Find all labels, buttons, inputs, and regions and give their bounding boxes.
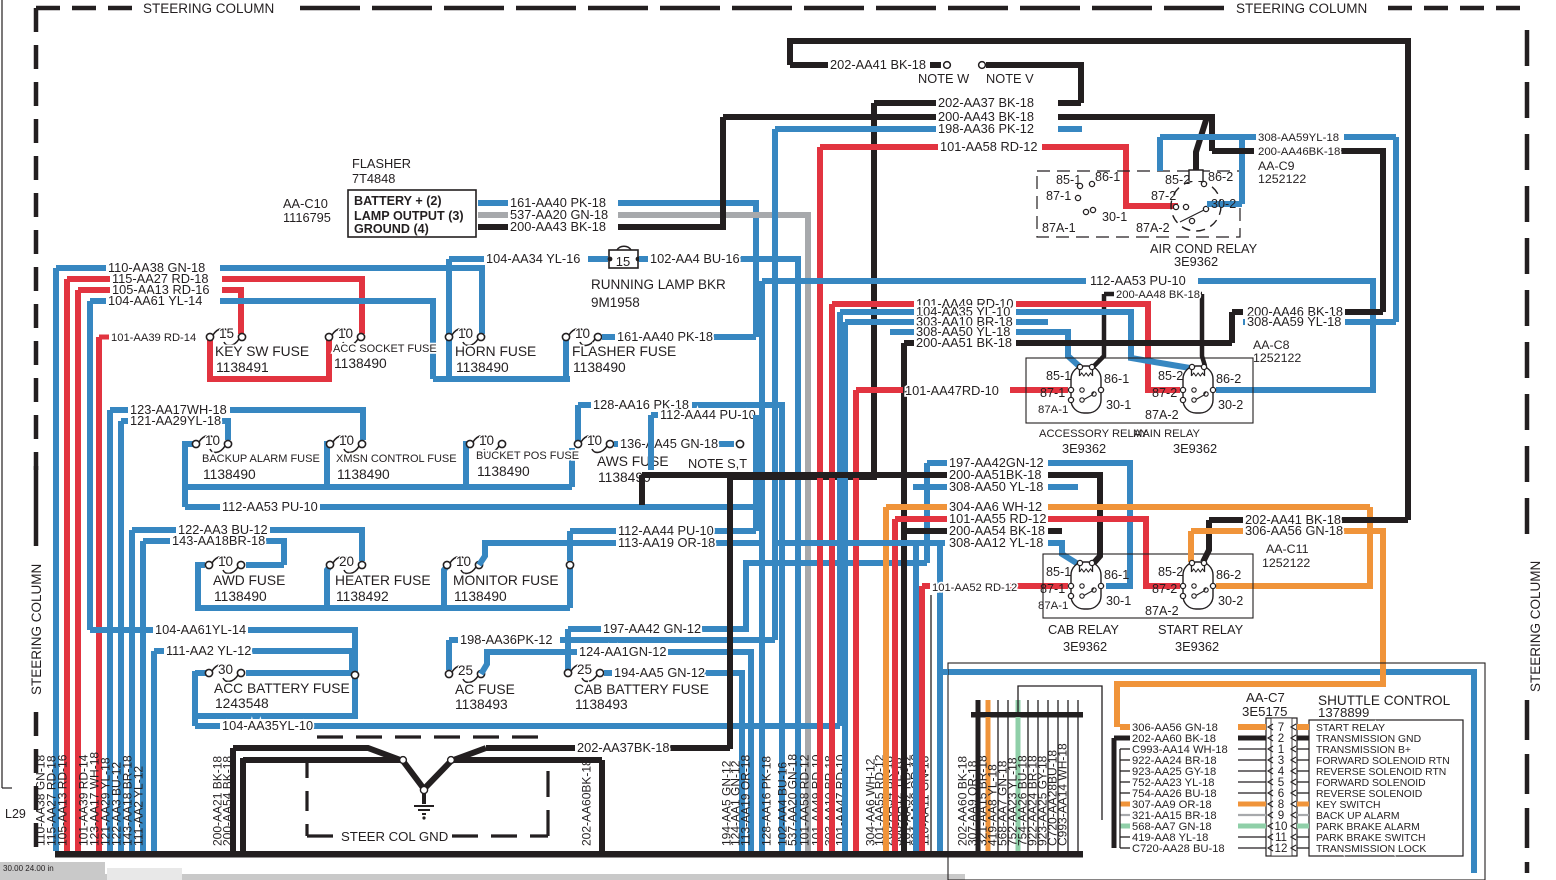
- wire 200-AA48 row: [1104, 292, 1114, 297]
- svg-text:143-AA18BR-18: 143-AA18BR-18: [172, 533, 265, 548]
- svg-text:30-2: 30-2: [1218, 398, 1243, 412]
- wire shuttle pin 12 C720-AA28: [1120, 847, 1130, 849]
- wire 197-AA42 lower row: [568, 626, 601, 632]
- svg-text:200-AA48 BK-18: 200-AA48 BK-18: [1116, 289, 1200, 301]
- svg-text:86-1: 86-1: [1095, 170, 1120, 184]
- svg-text:PARK BRAKE ALARM: PARK BRAKE ALARM: [1316, 822, 1420, 833]
- shuttle pin 7 chevrons: [1268, 724, 1296, 730]
- relay box CAB START: [1043, 554, 1253, 618]
- wire 101-AA47 row: [856, 387, 903, 393]
- flasher terminal box: [348, 190, 476, 237]
- svg-text:101-AA39 RD-14: 101-AA39 RD-14: [111, 332, 196, 344]
- wire 922-AA24 connector stub: [1047, 717, 1049, 851]
- wire 104-AA34 row: [449, 256, 484, 262]
- svg-text:BUCKET POS FUSE: BUCKET POS FUSE: [476, 450, 579, 462]
- svg-text:TRANSMISSION B+: TRANSMISSION B+: [1316, 745, 1411, 756]
- wire 101-AA52 row: [922, 583, 930, 589]
- svg-text:3E9362: 3E9362: [1173, 441, 1217, 456]
- wire 104-AA61 lower row: [90, 627, 153, 633]
- wire 123-AA17 vertical: [107, 410, 113, 851]
- relay AIR COND unit: [1171, 181, 1221, 231]
- relay MAIN RELAY: [1183, 366, 1213, 413]
- wire 112-AA53 feed riser: [185, 441, 196, 447]
- shuttle pin 8 chevrons: [1268, 801, 1296, 807]
- wire 101-AA39 vertical: [96, 337, 102, 851]
- relay box ACCESSORY MAIN: [1026, 358, 1253, 423]
- svg-text:3E9362: 3E9362: [1175, 639, 1219, 654]
- wire 202-AA37 upper row: [874, 100, 936, 106]
- fuse AWS FUSE: [574, 440, 581, 447]
- svg-text:87A-2: 87A-2: [1145, 408, 1179, 422]
- svg-text:BACKUP ALARM FUSE: BACKUP ALARM FUSE: [202, 453, 320, 465]
- breaker RUNNING LAMP BKR symbol: [609, 250, 638, 268]
- wire shuttle pin 2 202-AA60: [1120, 736, 1130, 741]
- svg-text:1138490: 1138490: [203, 467, 256, 482]
- svg-text:87A-1: 87A-1: [1042, 221, 1076, 235]
- svg-text:85-1: 85-1: [1046, 369, 1071, 383]
- wire 112-AA53 row: [185, 504, 220, 510]
- fuse ACC BATTERY FUSE: [205, 669, 212, 676]
- svg-text:3E5175: 3E5175: [1242, 704, 1287, 719]
- shuttle area box: [948, 663, 1485, 880]
- svg-text:200-AA54 BK-18: 200-AA54 BK-18: [221, 756, 235, 846]
- wire horn flasher input bus: [433, 376, 570, 382]
- wire 197-AA42 row: [927, 460, 947, 466]
- svg-text:30.00 24.00 in: 30.00 24.00 in: [3, 864, 54, 873]
- svg-text:200-AA43 BK-18: 200-AA43 BK-18: [510, 219, 606, 234]
- wire 202-AA60 gnd vertical: [599, 760, 605, 851]
- wire 102-AA4 row: [639, 256, 648, 262]
- wire 161-AA40 flasher row: [478, 200, 508, 206]
- wire 419-AA8 connector stub: [1007, 717, 1009, 851]
- wire 104-AA61 row: [90, 298, 106, 304]
- wire 200-AA43 into air relay coil: [1196, 117, 1207, 170]
- svg-text:REVERSE SOLENOID RTN: REVERSE SOLENOID RTN: [1316, 767, 1446, 778]
- svg-text:FORWARD SOLENOID: FORWARD SOLENOID: [1316, 778, 1426, 789]
- shuttle pin 2 chevrons: [1268, 735, 1296, 741]
- wire 105-AA13 vertical: [75, 290, 81, 851]
- terminal NOTE V circle: [979, 62, 986, 69]
- svg-text:104-AA35YL-10: 104-AA35YL-10: [222, 718, 313, 733]
- svg-text:GROUND (4): GROUND (4): [354, 222, 429, 236]
- svg-text:200-AA51 BK-18: 200-AA51 BK-18: [916, 335, 1012, 350]
- svg-text:124-AA1GN-12: 124-AA1GN-12: [579, 644, 667, 659]
- svg-text:111-AA2 YL-12: 111-AA2 YL-12: [132, 766, 146, 846]
- ground junction dots: [400, 757, 407, 764]
- svg-text:ACC BATTERY FUSE: ACC BATTERY FUSE: [214, 681, 350, 696]
- svg-text:START RELAY: START RELAY: [1158, 622, 1244, 637]
- wire 101-AA58 row: [820, 144, 938, 150]
- svg-text:STEERING COLUMN: STEERING COLUMN: [1236, 1, 1367, 16]
- wire 308-AA59 lower row: [1243, 319, 1245, 325]
- wire 200-AA46 upper row: [1212, 148, 1254, 154]
- relay CAB RELAY: [1071, 562, 1101, 609]
- svg-text:1252122: 1252122: [1253, 351, 1301, 365]
- wire 308-AA50 lower row: [913, 484, 947, 490]
- svg-text:XMSN CONTROL FUSE: XMSN CONTROL FUSE: [336, 453, 457, 465]
- svg-text:102-AA4 BU-16: 102-AA4 BU-16: [650, 251, 740, 266]
- wire 304-AA6 to START 30-2: [1216, 507, 1370, 586]
- svg-text:111-AA2 YL-12: 111-AA2 YL-12: [166, 643, 251, 658]
- svg-text:TRANSMISSION GND: TRANSMISSION GND: [1316, 734, 1421, 745]
- svg-text:86-2: 86-2: [1216, 372, 1241, 386]
- wire 110-AA38 row: [56, 265, 106, 271]
- svg-text:101-AA47RD-10: 101-AA47RD-10: [905, 383, 999, 398]
- fuse HORN FUSE: [445, 333, 452, 340]
- shuttle pin 6 chevrons: [1268, 790, 1296, 796]
- fuse BACKUP ALARM FUSE: [192, 440, 199, 447]
- svg-text:3E9362: 3E9362: [1063, 639, 1107, 654]
- wire 308-AA12 row: [775, 540, 945, 546]
- svg-text:MAIN RELAY: MAIN RELAY: [1133, 428, 1200, 440]
- svg-text:25: 25: [458, 663, 473, 678]
- wire 200-AA43 flasher row: [478, 224, 508, 230]
- fuse CAB BATTERY FUSE: [564, 669, 571, 676]
- wire 115-AA27 row: [67, 276, 110, 282]
- svg-text:86-2: 86-2: [1216, 568, 1241, 582]
- svg-text:121-AA29YL-18: 121-AA29YL-18: [130, 413, 221, 428]
- wire 752-AA23 connector stub: [1027, 717, 1029, 851]
- svg-text:3E9362: 3E9362: [1062, 441, 1106, 456]
- svg-text:HORN FUSE: HORN FUSE: [455, 344, 536, 359]
- svg-text:STEERING COLUMN: STEERING COLUMN: [143, 1, 274, 16]
- shuttle pin 10 chevrons: [1268, 823, 1296, 829]
- wire shuttle pin 9 321-AA15: [1120, 814, 1130, 816]
- wire 101-AA49 row: [832, 301, 914, 307]
- svg-text:1116795: 1116795: [283, 210, 331, 225]
- shuttle pin 1 chevrons: [1268, 746, 1296, 752]
- svg-text:197-AA42 GN-12: 197-AA42 GN-12: [603, 621, 701, 636]
- shuttle pin 3 chevrons: [1268, 757, 1296, 763]
- wire blue bottom frame run: [940, 669, 948, 675]
- svg-text:9M1958: 9M1958: [591, 295, 640, 310]
- svg-text:105-AA13 RD-16: 105-AA13 RD-16: [56, 754, 70, 846]
- svg-text:KEY SW FUSE: KEY SW FUSE: [215, 344, 309, 359]
- fuse FLASHER FUSE: [562, 333, 569, 340]
- svg-text:AWD FUSE: AWD FUSE: [213, 573, 285, 588]
- svg-text:BACK UP ALARM: BACK UP ALARM: [1316, 811, 1400, 822]
- shuttle pin 4 chevrons: [1268, 768, 1296, 774]
- wire 122-AA3 vertical: [129, 530, 135, 851]
- shuttle signal box: [1309, 720, 1463, 856]
- wire NOTE V to 202-AA37: [986, 65, 1081, 103]
- wire 143-AA18 row: [143, 538, 170, 544]
- wire 308-AA50 row: [890, 329, 914, 335]
- svg-text:AA-C7: AA-C7: [1246, 690, 1285, 705]
- svg-text:START RELAY: START RELAY: [1316, 723, 1385, 734]
- svg-text:200-AA46BK-18: 200-AA46BK-18: [1258, 146, 1340, 158]
- wire 128-AA16 row: [578, 402, 591, 408]
- wire 104-AA35 upper row: [840, 309, 914, 315]
- svg-text:1138490: 1138490: [214, 589, 267, 604]
- svg-text:STEER COL GND: STEER COL GND: [341, 829, 448, 844]
- svg-text:1138493: 1138493: [575, 697, 628, 712]
- svg-text:10: 10: [456, 554, 471, 569]
- svg-text:1138491: 1138491: [216, 360, 269, 375]
- svg-text:MONITOR FUSE: MONITOR FUSE: [453, 573, 559, 588]
- svg-text:1138490: 1138490: [456, 360, 509, 375]
- wire 112-AA53 right row: [762, 278, 1086, 284]
- svg-text:REVERSE SOLENOID: REVERSE SOLENOID: [1316, 789, 1422, 800]
- svg-text:15: 15: [616, 254, 630, 269]
- svg-text:20: 20: [339, 554, 354, 569]
- svg-text:86-2: 86-2: [1208, 170, 1233, 184]
- svg-text:3E9362: 3E9362: [1174, 254, 1218, 269]
- svg-text:10: 10: [339, 433, 354, 448]
- shuttle pin 5 chevrons: [1268, 779, 1296, 785]
- terminal monitor aux circle: [566, 561, 573, 568]
- scan gray box bottom-left: [0, 862, 105, 880]
- wire 304-AA6 row: [886, 504, 947, 510]
- wire 115-AA27 vertical: [64, 279, 70, 851]
- wire shuttle pin 8 307-AA9: [1120, 802, 1130, 807]
- svg-text:CAB BATTERY FUSE: CAB BATTERY FUSE: [574, 682, 709, 697]
- svg-text:128-AA16 PK-18: 128-AA16 PK-18: [760, 756, 774, 846]
- connector bottom bar: [971, 712, 1083, 718]
- svg-text:1378899: 1378899: [1318, 705, 1369, 720]
- svg-text:15: 15: [219, 326, 234, 341]
- wire 306-AA56 into START 85-2: [1188, 531, 1194, 562]
- svg-text:87A-1: 87A-1: [1038, 404, 1068, 416]
- svg-text:85-2: 85-2: [1165, 173, 1190, 187]
- wire C720-AA28BU-18 connector stub: [1067, 717, 1069, 851]
- wire 101-AA39 row: [99, 335, 109, 340]
- wire shuttle pin 11 419-AA8: [1120, 836, 1130, 838]
- wire 306-AA56 row: [1191, 528, 1243, 534]
- wire 121-AA29 row: [121, 418, 128, 424]
- svg-text:1138490: 1138490: [573, 360, 626, 375]
- wire 604-AA22 vertical thin: [930, 595, 932, 851]
- wire 202-AA37 gnd row: [486, 745, 575, 751]
- wire 321-AA15 connector stub: [997, 717, 999, 851]
- fuse ACC SOCKET FUSE: [325, 333, 332, 340]
- terminal NOTE S,T circle: [736, 440, 743, 447]
- border steering column top dashed line: [36, 6, 1524, 11]
- wire shuttle pin 4 923-AA25: [1120, 770, 1130, 772]
- wire 123-AA17 row: [110, 407, 128, 413]
- svg-text:104-AA61 YL-14: 104-AA61 YL-14: [108, 293, 202, 308]
- wire 200-AA54 gnd vertical: [240, 758, 246, 851]
- svg-text:104-AA61YL-14: 104-AA61YL-14: [155, 622, 246, 637]
- wire key sw fuse input loop: [210, 337, 329, 379]
- wire 111-AA2 vertical: [151, 651, 157, 851]
- wire 200-AA43 upper row: [723, 114, 936, 120]
- wire shuttle pin 7 306-AA56: [1120, 724, 1130, 730]
- svg-text:308-AA59 YL-18: 308-AA59 YL-18: [1247, 314, 1341, 329]
- svg-text:101-AA58 RD-12: 101-AA58 RD-12: [940, 139, 1037, 154]
- wire 105-AA13 row: [78, 287, 110, 293]
- svg-text:NOTE W: NOTE W: [918, 71, 970, 86]
- wire 202-AA41 lower row: [1209, 517, 1243, 523]
- svg-text:202-AA41 BK-18: 202-AA41 BK-18: [830, 57, 926, 72]
- svg-text:1138490: 1138490: [334, 356, 387, 371]
- wire 104-AA35 acc battery loop: [195, 670, 206, 676]
- svg-text:85-1: 85-1: [1046, 565, 1071, 579]
- svg-text:306-AA56 GN-18: 306-AA56 GN-18: [1245, 523, 1343, 538]
- svg-text:PARK BRAKE SWITCH: PARK BRAKE SWITCH: [1316, 833, 1426, 844]
- svg-text:STEERING COLUMN: STEERING COLUMN: [29, 564, 44, 695]
- svg-text:AA-C10: AA-C10: [283, 196, 328, 211]
- svg-text:AA-C9: AA-C9: [1258, 159, 1295, 173]
- svg-text:AWS FUSE: AWS FUSE: [597, 454, 669, 469]
- svg-text:198-AA36 PK-12: 198-AA36 PK-12: [938, 121, 1034, 136]
- svg-text:202-AA60BK-18: 202-AA60BK-18: [580, 759, 594, 846]
- svg-text:85-2: 85-2: [1158, 565, 1183, 579]
- wire 194-AA5 row: [604, 670, 612, 676]
- wire 101-AA55 row: [895, 516, 947, 522]
- wire 110-AA11 bottom run: [942, 672, 1474, 873]
- wire shuttle thin link: [1018, 686, 1102, 820]
- svg-text:112-AA44 PU-10: 112-AA44 PU-10: [618, 523, 714, 538]
- scan gray strip bottom: [0, 874, 965, 880]
- shuttle pin 9 chevrons: [1268, 812, 1296, 818]
- svg-text:25: 25: [577, 662, 592, 677]
- shuttle pin 11 chevrons: [1268, 834, 1296, 840]
- svg-text:1252122: 1252122: [1262, 556, 1310, 570]
- svg-text:202-AA37 BK-18: 202-AA37 BK-18: [938, 95, 1034, 110]
- svg-text:104-AA34 YL-16: 104-AA34 YL-16: [486, 251, 580, 266]
- svg-text:C993-AA14 WH-18: C993-AA14 WH-18: [1056, 743, 1070, 846]
- svg-text:1138490: 1138490: [337, 467, 390, 482]
- wire 161-AA40 fuse output: [602, 334, 615, 340]
- svg-text:10: 10: [458, 326, 473, 341]
- svg-text:85-1: 85-1: [1056, 173, 1081, 187]
- border steering column left dashed line: [34, 8, 39, 858]
- svg-text:ACC SOCKET FUSE: ACC SOCKET FUSE: [333, 343, 437, 355]
- svg-text:10: 10: [338, 326, 353, 341]
- ground symbol: [422, 793, 426, 804]
- wire 111-AA2 row: [154, 648, 164, 654]
- terminal acc battery junction circle: [351, 671, 358, 678]
- wire 136-AA45 output: [614, 441, 618, 447]
- svg-text:ACCESSORY RELAY: ACCESSORY RELAY: [1039, 428, 1148, 440]
- svg-text:112-AA44 PU-10: 112-AA44 PU-10: [660, 407, 756, 422]
- svg-text:12: 12: [1275, 842, 1288, 855]
- svg-text:202-AA37BK-18: 202-AA37BK-18: [577, 740, 669, 755]
- svg-text:30: 30: [218, 662, 233, 677]
- svg-text:87-1: 87-1: [1040, 386, 1065, 400]
- wire shuttle pin 10 568-AA7: [1120, 824, 1130, 829]
- wire 202-AA60 connector stub: [976, 717, 981, 851]
- svg-text:10: 10: [587, 433, 602, 448]
- shuttle pin 12 chevrons: [1268, 845, 1296, 851]
- wire 308-AA59 air relay output: [1207, 201, 1242, 207]
- svg-text:87-1: 87-1: [1040, 582, 1065, 596]
- svg-text:7T4848: 7T4848: [352, 171, 395, 186]
- svg-text:86-1: 86-1: [1104, 372, 1129, 386]
- wire 537-AA20 flasher row: [478, 212, 508, 218]
- wire 110-AA11 vertical: [937, 543, 943, 672]
- fuse KEY SW FUSE: [206, 333, 213, 340]
- svg-text:308-AA59YL-18: 308-AA59YL-18: [1258, 132, 1339, 144]
- wire 198-AA36 row: [449, 637, 458, 643]
- wire 112-AA44 lower row: [567, 531, 573, 561]
- wire 200-AA51 row: [642, 472, 947, 478]
- relay box AIR COND: [1037, 171, 1240, 237]
- wire 113-AA19 monitor output: [479, 543, 616, 565]
- wire 202-AA60 shuttle drop: [1112, 738, 1117, 848]
- svg-text:NOTE V: NOTE V: [986, 71, 1034, 86]
- steer col gnd dashed box: [317, 735, 549, 738]
- fuse HEATER FUSE: [326, 561, 333, 568]
- wire 202-AA41 top run: [790, 41, 1408, 520]
- svg-text:HEATER FUSE: HEATER FUSE: [335, 573, 431, 588]
- svg-text:86-1: 86-1: [1104, 568, 1129, 582]
- svg-text:AA-C8: AA-C8: [1253, 338, 1290, 352]
- svg-text:30-2: 30-2: [1211, 197, 1236, 211]
- wire 303-AA10 row: [845, 319, 914, 325]
- svg-text:1138492: 1138492: [336, 589, 389, 604]
- svg-text:308-AA12 YL-18: 308-AA12 YL-18: [949, 535, 1043, 550]
- wire 121-AA29 vertical: [118, 421, 124, 851]
- relay ACCESSORY RELAY: [1071, 366, 1101, 413]
- svg-text:30-1: 30-1: [1106, 398, 1131, 412]
- svg-text:RUNNING LAMP BKR: RUNNING LAMP BKR: [591, 277, 726, 292]
- svg-text:87-2: 87-2: [1152, 386, 1177, 400]
- svg-text:CAB RELAY: CAB RELAY: [1048, 622, 1119, 637]
- svg-text:87A-2: 87A-2: [1136, 221, 1170, 235]
- page edge rule left: [2, 0, 12, 788]
- wire backup xmsn bucket input bus: [185, 484, 572, 490]
- wire 202-AA60 gnd row: [451, 757, 602, 763]
- wire 308-AA59 right vertical: [1393, 137, 1399, 322]
- svg-text:FLASHER FUSE: FLASHER FUSE: [572, 344, 676, 359]
- relay AIR COND socket pins: [1077, 183, 1082, 188]
- bottom harness bar: [55, 851, 1083, 858]
- svg-text:NOTE S,T: NOTE S,T: [688, 456, 747, 471]
- relay START RELAY: [1183, 562, 1213, 609]
- svg-text:30-1: 30-1: [1102, 210, 1127, 224]
- wire shuttle pin 6 754-AA26: [1120, 792, 1130, 794]
- svg-text:30-1: 30-1: [1106, 594, 1131, 608]
- svg-text:198-AA36PK-12: 198-AA36PK-12: [460, 632, 552, 647]
- wire 112-AA44 upper row: [651, 412, 658, 418]
- border steering column right dashed line: [1525, 30, 1530, 873]
- svg-text:87-2: 87-2: [1152, 582, 1177, 596]
- svg-text:101-AA52 RD-12: 101-AA52 RD-12: [932, 582, 1017, 594]
- svg-text:FORWARD SOLENOID RTN: FORWARD SOLENOID RTN: [1316, 756, 1450, 767]
- wire 200-AA51 upper row: [904, 340, 914, 346]
- wire 104-AA35 row: [195, 723, 220, 729]
- svg-text:87A-2: 87A-2: [1145, 604, 1179, 618]
- svg-text:STEERING COLUMN: STEERING COLUMN: [1528, 561, 1543, 692]
- svg-text:L29: L29: [5, 807, 26, 821]
- wire 122-AA3 row: [132, 527, 176, 533]
- fuse XMSN CONTROL FUSE: [326, 440, 333, 447]
- wire shuttle thin bus: [1119, 749, 1121, 848]
- svg-text:87-1: 87-1: [1046, 189, 1071, 203]
- wire 568-AA7 connector stub: [1016, 717, 1021, 851]
- svg-text:112-AA53 PU-10: 112-AA53 PU-10: [1090, 273, 1186, 288]
- svg-text:1138493: 1138493: [455, 697, 508, 712]
- svg-text:10: 10: [575, 326, 590, 341]
- wire 754-AA26 connector stub: [1037, 717, 1039, 851]
- svg-text:112-AA53 PU-10: 112-AA53 PU-10: [222, 499, 318, 514]
- wire shuttle pin 3 922-AA24: [1120, 759, 1130, 761]
- wire 307-AA9 connector stub: [986, 717, 991, 851]
- svg-text:113-AA19 OR-18: 113-AA19 OR-18: [739, 755, 753, 846]
- ground V wires: [233, 748, 424, 789]
- svg-text:30-2: 30-2: [1218, 594, 1243, 608]
- wire 143-AA18 vertical: [140, 541, 146, 851]
- wire shuttle pin 1 C993-AA14: [1120, 748, 1130, 750]
- svg-text:10: 10: [479, 433, 494, 448]
- wire shuttle pin 5 752-AA23: [1120, 781, 1130, 783]
- svg-text:1138490: 1138490: [454, 589, 507, 604]
- wire 110-AA38 vertical: [53, 268, 59, 851]
- svg-text:C720-AA28 BU-18: C720-AA28 BU-18: [1132, 843, 1225, 855]
- shuttle connector body: [1266, 718, 1297, 856]
